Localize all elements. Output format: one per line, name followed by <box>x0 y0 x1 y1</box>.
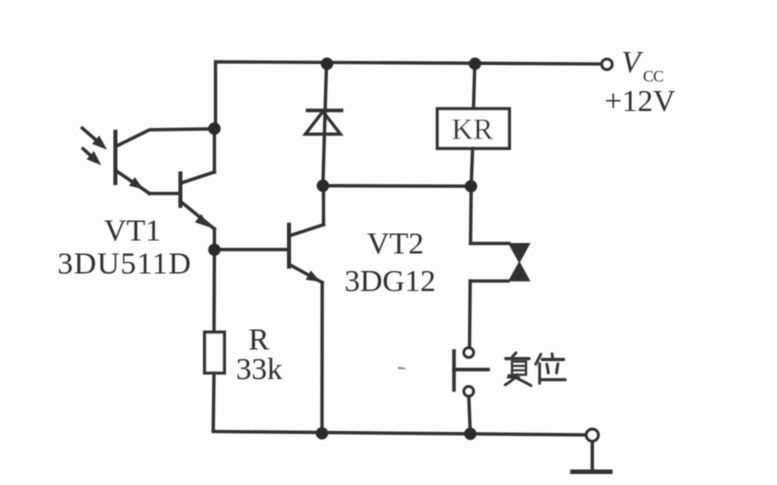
svg-text:3DG12: 3DG12 <box>345 263 436 298</box>
svg-text:+12V: +12V <box>605 83 676 118</box>
svg-text:3DU511D: 3DU511D <box>58 246 192 281</box>
svg-text:KR: KR <box>452 113 494 146</box>
svg-text:V: V <box>622 44 644 79</box>
svg-text:VT1: VT1 <box>104 213 161 248</box>
svg-text:VT2: VT2 <box>367 226 424 261</box>
svg-text:33k: 33k <box>236 351 283 386</box>
